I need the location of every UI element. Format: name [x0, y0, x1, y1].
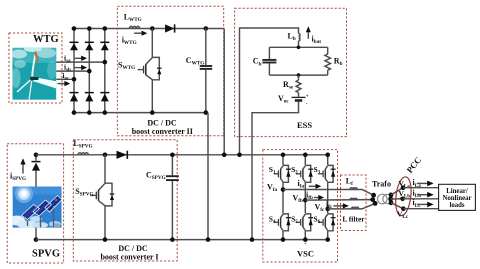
node: phase junctions	[72, 60, 107, 82]
label L_WTG	[124, 13, 142, 24]
label S_SPVG	[75, 187, 93, 198]
svg-text:boost converter II: boost converter II	[132, 127, 193, 136]
arrow i_SPVG	[20, 158, 25, 173]
svg-text:S5: S5	[291, 215, 298, 226]
svg-text:boost converter I: boost converter I	[100, 253, 158, 262]
label i_fa	[298, 179, 305, 190]
svg-text:VLb: VLb	[399, 189, 411, 200]
battery V_oc	[292, 95, 309, 107]
label Trafo	[372, 180, 391, 189]
node: C_SPVG bottom junction	[170, 237, 175, 242]
transistor S1 (IGBT)	[274, 165, 291, 182]
diode boost I (points right)	[117, 151, 128, 159]
node: S_SPVG bottom junction	[103, 237, 108, 242]
wire: VSC leg b	[304, 155, 306, 240]
svg-text:PCC: PCC	[404, 155, 423, 175]
label L filter	[342, 215, 365, 224]
node: phase b output	[303, 198, 308, 203]
wire: DC- bus	[36, 239, 328, 241]
transistor S5 (IGBT)	[296, 213, 313, 230]
node: VSC top rail junctions	[281, 153, 330, 158]
transistor S2 (IGBT)	[296, 165, 313, 182]
inductor filter coil c	[352, 207, 359, 209]
diode D2 lower leg3	[100, 93, 109, 102]
label S1	[269, 165, 276, 176]
label VSC	[297, 249, 314, 259]
wire: phase a output line to trafo	[283, 190, 374, 196]
capacitor C_SPVG	[166, 155, 179, 240]
wire: rectifier leg 1	[73, 29, 75, 113]
node: L_b junction	[297, 46, 301, 50]
wire: ESS positive top wire	[240, 28, 299, 155]
wire: PCC to loads line a	[403, 187, 439, 189]
node PCC phase c	[401, 206, 406, 211]
label L_SPVG	[73, 139, 92, 150]
arrow i_fb	[314, 195, 324, 200]
node: ESS positive junction on DC+ bus	[237, 153, 242, 158]
svg-text:LWTG: LWTG	[124, 13, 142, 24]
label i_Lb	[413, 188, 422, 199]
diode D3 upper leg2	[85, 42, 94, 50]
diode D5 upper leg3	[100, 42, 109, 50]
capacitor C_b	[262, 47, 276, 75]
node: phase c output	[325, 207, 330, 212]
label i_fc	[326, 199, 333, 210]
wire: rectifier leg 3	[104, 29, 106, 113]
label i_bat	[312, 34, 322, 45]
label L_b	[288, 31, 296, 42]
node: C_WTG top junction	[204, 26, 209, 31]
svg-text:Trafo: Trafo	[372, 180, 391, 189]
label R_b	[334, 57, 343, 68]
label i_fb	[306, 191, 313, 202]
label S3	[314, 165, 321, 176]
label V_oc	[278, 94, 289, 105]
svg-text:Nonlinear: Nonlinear	[442, 195, 471, 202]
label C_b	[253, 57, 262, 68]
wire: trafo to PCC node c	[391, 203, 403, 209]
svg-text:Lf: Lf	[346, 177, 353, 188]
wire: trafo to PCC node a	[391, 188, 403, 195]
wire: phase c output line to trafo	[328, 203, 375, 209]
diode boost II (points right)	[165, 24, 175, 32]
svg-text:S2: S2	[291, 165, 298, 176]
svg-text:loads: loads	[449, 202, 464, 209]
wire: phase a line from WTG to rectifier leg 3	[56, 61, 105, 63]
WTG block dashed box	[9, 33, 62, 103]
wire: phase c line from WTG to rectifier leg 1	[56, 78, 74, 80]
svg-text:Voc: Voc	[278, 94, 289, 105]
svg-text:S6: S6	[314, 215, 321, 226]
arrow for i_sc	[58, 81, 71, 86]
wire: L_b to mid rail	[298, 41, 300, 47]
node: SPVG top junction	[34, 153, 39, 158]
svg-text:Cb: Cb	[253, 57, 262, 68]
boost converter I dashed box	[73, 140, 177, 261]
node: rectifier negative junction on DC- bus	[206, 237, 211, 242]
node: top rail junctions	[72, 26, 107, 31]
wire: SPVG negative to DC- bus	[35, 228, 37, 240]
resistor R_se	[296, 75, 301, 97]
wire: VSC leg a	[282, 155, 284, 240]
diode SPVG (points up)	[32, 162, 41, 171]
wire: ESS loop bottom rail	[269, 74, 327, 76]
node: S_WTG bottom junction	[150, 110, 155, 115]
wire: diode to DC+ bus	[35, 155, 37, 162]
label PCC (rotated)	[404, 155, 423, 175]
boost converter II dashed box	[117, 6, 223, 136]
ESS dashed box	[235, 8, 347, 136]
arrow i_WTG	[134, 31, 147, 36]
svg-text:S4: S4	[269, 215, 276, 226]
label V_Lb	[399, 189, 411, 200]
svg-text:iLc: iLc	[413, 198, 422, 209]
label i_SPVG	[10, 172, 26, 183]
svg-text:+: +	[306, 95, 309, 100]
label i_sc	[63, 71, 70, 82]
node: bottom rail junctions	[72, 110, 107, 115]
transistor S_WTG (IGBT)	[138, 29, 162, 113]
diode D4 lower leg1	[70, 93, 79, 102]
label L_f	[346, 177, 353, 188]
svg-text:Vfa: Vfa	[267, 183, 278, 194]
wire: SPVG positive up to diode	[35, 171, 37, 187]
svg-text:SSPVG: SSPVG	[75, 187, 93, 198]
label SPVG	[32, 249, 60, 260]
svg-text:ibat: ibat	[312, 34, 322, 45]
arrow i_Lc	[417, 202, 434, 208]
inductor L_b	[299, 34, 301, 42]
wire: rectifier top rail	[72, 28, 225, 30]
inductor L_SPVG	[78, 153, 88, 155]
node: trafo input a	[371, 193, 376, 198]
transistor S_SPVG (IGBT)	[90, 155, 114, 240]
label S4	[269, 215, 276, 226]
wire: phase b output line to trafo	[305, 199, 372, 202]
label i_sa	[64, 53, 71, 64]
label ESS	[297, 120, 312, 130]
wire: rectifier bottom rail	[72, 112, 208, 114]
node: ESS negative junction on DC- bus	[250, 237, 255, 242]
node: loop bottom junction	[297, 73, 301, 77]
label C_SPVG	[146, 171, 166, 182]
SPVG photo (solar panels image)	[9, 185, 62, 229]
label i_Lc	[413, 198, 422, 209]
node PCC phase b	[400, 197, 405, 202]
svg-text:LSPVG: LSPVG	[73, 139, 92, 150]
PCC ellipse	[394, 176, 413, 217]
svg-text:Lb: Lb	[288, 31, 296, 42]
label V_fb	[293, 194, 304, 205]
WTG photo (wind turbine image)	[11, 46, 57, 100]
L filter dashed box	[341, 175, 367, 231]
label S6	[314, 215, 321, 226]
svg-text:Vfb: Vfb	[293, 194, 304, 205]
inductor filter coil a	[350, 188, 357, 190]
label DC / DC (boost II)	[147, 119, 177, 128]
label DC / DC (boost I)	[118, 244, 148, 253]
transformer Trafo (two windings)	[378, 194, 393, 204]
svg-text:SWTG: SWTG	[118, 61, 135, 72]
svg-text:iWTG: iWTG	[122, 36, 137, 47]
WTG label	[33, 34, 59, 45]
svg-text:+: +	[304, 241, 307, 247]
label plus mark under VSC bottom rail	[304, 241, 307, 247]
svg-text:WTG: WTG	[33, 34, 59, 45]
label V_La	[399, 179, 411, 190]
diode D1 upper leg1	[70, 42, 79, 50]
wire: PCC to loads line c	[403, 208, 438, 210]
arrow i_Lb	[417, 192, 434, 198]
label V_Lc	[397, 209, 409, 220]
label C_WTG	[186, 56, 204, 67]
arrow for i_sb	[75, 65, 87, 70]
inductor L_WTG	[129, 26, 139, 28]
wire: ESS mid rail	[269, 46, 327, 48]
svg-text:SPVG: SPVG	[32, 249, 60, 260]
arrow i_La	[417, 181, 434, 187]
label i_sb	[64, 63, 71, 74]
svg-text:S3: S3	[314, 165, 321, 176]
svg-text:Rb: Rb	[334, 57, 343, 68]
node: S_WTG top junction	[150, 26, 155, 31]
arrow i_fc	[333, 203, 349, 208]
label S5	[291, 215, 298, 226]
label Linear/Nonlinear loads	[442, 188, 471, 209]
svg-text:Rse: Rse	[283, 80, 294, 91]
diode D6 lower leg2	[85, 93, 94, 102]
label i_La	[413, 178, 422, 189]
SPVG dashed box	[7, 144, 63, 263]
arrow i_bat	[306, 26, 311, 39]
node: boost II output junction on DC+ bus	[222, 153, 227, 158]
transistor S3 (IGBT)	[318, 165, 335, 182]
wire: phase b line from WTG to rectifier leg 2	[56, 70, 89, 72]
node: trafo output c	[389, 200, 394, 205]
label V_fa	[267, 183, 278, 194]
wire: trafo to PCC node b	[391, 198, 403, 200]
loads box	[439, 184, 476, 210]
wire: DC+ bus	[36, 154, 328, 156]
label R_se	[283, 80, 294, 91]
wire: ESS negative down and left	[252, 102, 299, 240]
VSC dashed box	[263, 150, 338, 262]
node PCC phase a	[401, 185, 406, 190]
svg-text:L filter: L filter	[342, 215, 365, 224]
wire: PCC to loads line b	[403, 198, 439, 200]
wire: VSC leg c	[327, 155, 329, 240]
svg-text:Linear/: Linear/	[446, 188, 468, 195]
node: SPVG bottom junction	[34, 237, 39, 242]
node: phase a output	[281, 187, 286, 192]
wire: boost II output down to DC+ bus	[223, 29, 225, 155]
node: trafo output a	[389, 193, 394, 198]
arrow i_fa	[309, 184, 322, 189]
label boost converter I	[100, 253, 158, 262]
capacitor C_WTG	[200, 29, 213, 113]
node: trafo input b	[370, 197, 375, 202]
transistor S4 (IGBT)	[274, 213, 291, 230]
svg-text:Vfc: Vfc	[315, 203, 326, 214]
svg-text:ESS: ESS	[297, 120, 312, 130]
svg-text:ifa: ifa	[298, 179, 305, 190]
svg-text:VSC: VSC	[297, 249, 314, 259]
transistor S6 (IGBT)	[318, 213, 335, 230]
label V_fc	[315, 203, 326, 214]
node: trafo input c	[373, 201, 378, 206]
label S2	[291, 165, 298, 176]
svg-text:CWTG: CWTG	[186, 56, 204, 67]
label boost converter II	[132, 127, 193, 136]
svg-text:-: -	[306, 102, 308, 107]
node: VSC bottom rail junctions	[281, 237, 330, 242]
resistor R_b	[325, 47, 331, 75]
node: C_WTG bottom junction	[204, 110, 209, 115]
arrow for i_sa	[75, 56, 87, 61]
svg-text:CSPVG: CSPVG	[146, 171, 166, 182]
wire: rectifier leg 2	[88, 29, 90, 113]
label i_WTG	[122, 36, 137, 47]
node: C_SPVG top junction	[170, 153, 175, 158]
svg-text:S1: S1	[269, 165, 276, 176]
wire: rectifier negative down to DC- bus	[207, 113, 209, 240]
node: S_SPVG top junction	[103, 153, 108, 158]
inductor filter coil b	[350, 198, 357, 200]
label S_WTG	[118, 61, 135, 72]
node: trafo output b	[388, 197, 393, 202]
